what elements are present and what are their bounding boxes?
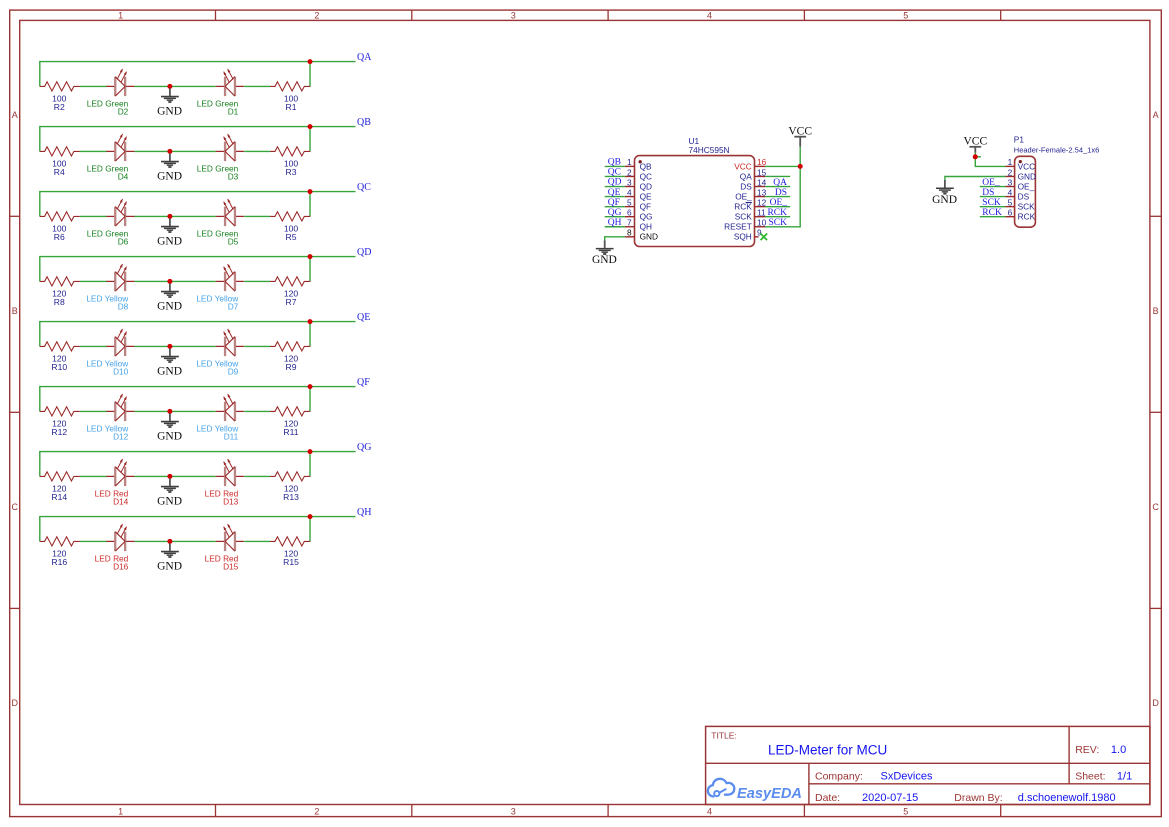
- LED D15 labels: [205, 553, 239, 571]
- wire D13-R13: [244, 475, 270, 477]
- LED D7: [216, 264, 244, 291]
- U1 pin 14 (DS): [740, 177, 766, 191]
- LED D8 labels: [86, 293, 129, 311]
- P1 pin 6 (RCK): [1006, 208, 1036, 222]
- junction dot on net QG: [308, 449, 313, 454]
- P1 pin 1 (VCC): [1006, 157, 1036, 171]
- ground symbol at P1 pin 2: [932, 180, 957, 206]
- LED D3: [216, 134, 244, 161]
- svg-text:9: 9: [757, 228, 762, 238]
- svg-text:D9: D9: [228, 367, 239, 377]
- ground symbol row QG: [157, 478, 182, 507]
- svg-text:D3: D3: [228, 172, 239, 182]
- svg-text:Drawn By:: Drawn By:: [954, 792, 1002, 804]
- svg-text:3: 3: [511, 807, 516, 817]
- resistor R7 value 120: [284, 289, 299, 307]
- wire net QD at U1 pin 3: [605, 186, 625, 188]
- svg-text:OE_: OE_: [1018, 181, 1035, 191]
- svg-text:QC: QC: [608, 168, 621, 178]
- LED D12 labels: [86, 423, 129, 441]
- no-connect flag at U1 pin 9: [761, 234, 768, 241]
- wire net QD rail: [40, 257, 356, 282]
- wire D6-D5 with GND tap: [135, 215, 216, 217]
- U1 pin 8 (GND): [625, 228, 658, 242]
- junction dot on net QA: [308, 59, 313, 64]
- EasyEDA logo: [708, 779, 802, 802]
- svg-text:D: D: [1152, 698, 1159, 708]
- svg-text:R4: R4: [54, 167, 65, 177]
- wire R4-D4: [80, 150, 107, 152]
- svg-text:QG: QG: [608, 208, 622, 218]
- LED D13: [216, 459, 244, 486]
- ground symbol row QH: [157, 543, 182, 572]
- LED D4 labels: [87, 163, 129, 181]
- junction dot GND tap row QF: [167, 409, 172, 414]
- junction dot on net QH: [308, 514, 313, 519]
- LED D14 labels: [95, 488, 129, 506]
- resistor R7: [270, 277, 310, 286]
- svg-text:15: 15: [757, 167, 767, 177]
- resistor R10 value 120: [51, 354, 67, 372]
- ground symbol row QE: [157, 348, 182, 377]
- svg-text:QB: QB: [357, 117, 371, 128]
- svg-text:3: 3: [1008, 177, 1013, 187]
- junction dot on net QD: [308, 254, 313, 259]
- svg-text:3: 3: [627, 177, 632, 187]
- svg-text:D13: D13: [223, 497, 239, 507]
- svg-text:R2: R2: [54, 102, 65, 112]
- svg-text:R11: R11: [283, 427, 298, 437]
- svg-text:D7: D7: [228, 302, 239, 312]
- svg-text:GND: GND: [157, 561, 182, 573]
- resistor R13: [270, 472, 310, 481]
- svg-text:D6: D6: [118, 237, 129, 247]
- LED D7 labels: [196, 293, 239, 311]
- svg-text:2: 2: [1008, 167, 1013, 177]
- svg-text:RCK: RCK: [982, 208, 1002, 218]
- ground symbol row QF: [157, 413, 182, 442]
- REV field: [1075, 744, 1126, 756]
- resistor R3 value 100: [284, 159, 299, 177]
- svg-text:R16: R16: [51, 557, 67, 567]
- wire net DS at P1 pin 4: [980, 196, 1006, 198]
- wire U1 pin 13 stub: [765, 196, 790, 198]
- svg-text:A: A: [12, 110, 18, 120]
- svg-text:6: 6: [627, 208, 632, 218]
- resistor R6 value 100: [52, 224, 67, 242]
- svg-text:R14: R14: [51, 492, 67, 502]
- wire U1 pin 12 stub: [765, 206, 790, 208]
- svg-text:R5: R5: [286, 232, 297, 242]
- wire R16-D16: [80, 540, 107, 542]
- LED D6 labels: [87, 228, 129, 246]
- LED D3 labels: [197, 163, 239, 181]
- resistor R11 value 120: [283, 419, 298, 437]
- svg-text:QD: QD: [640, 181, 652, 191]
- svg-text:2: 2: [314, 807, 319, 817]
- svg-text:QH: QH: [608, 218, 622, 228]
- LED D11: [216, 394, 244, 421]
- junction dot GND tap row QB: [167, 149, 172, 154]
- U1 pin 12 (RCK): [734, 197, 766, 211]
- wire R14-D14: [80, 475, 107, 477]
- svg-text:D: D: [11, 698, 18, 708]
- svg-text:QC: QC: [640, 171, 652, 181]
- wire D16-D15 with GND tap: [135, 540, 216, 542]
- LED D13 labels: [205, 488, 239, 506]
- LED D6: [106, 199, 134, 226]
- svg-text:QF: QF: [608, 198, 620, 208]
- LED D1: [216, 69, 244, 96]
- ground symbol row QB: [157, 153, 182, 182]
- wire net QE rail: [40, 322, 356, 347]
- Company field: [815, 770, 933, 782]
- svg-text:R15: R15: [283, 557, 299, 567]
- resistor R5: [270, 212, 310, 221]
- LED D8: [106, 264, 134, 291]
- LED D16: [106, 524, 134, 551]
- wire net QG rail: [40, 452, 356, 477]
- U1 pin 13 (OE_): [735, 187, 766, 201]
- junction dot GND tap row QA: [167, 84, 172, 89]
- svg-text:D5: D5: [228, 237, 239, 247]
- wire D10-D9 with GND tap: [135, 345, 216, 347]
- svg-text:SQH: SQH: [734, 232, 752, 242]
- svg-text:2020-07-15: 2020-07-15: [862, 792, 918, 804]
- svg-text:RESET: RESET: [724, 222, 752, 232]
- svg-text:GND: GND: [157, 236, 182, 248]
- wire U1 pin 8 to ground: [605, 237, 625, 241]
- resistor R1 value 100: [284, 94, 299, 112]
- svg-text:REV:: REV:: [1075, 744, 1099, 756]
- wire net QB rail: [40, 127, 356, 152]
- U1 pin 4 (QE): [625, 187, 652, 201]
- svg-text:GND: GND: [592, 254, 617, 266]
- wire VCC to P1 pin 1: [975, 153, 1005, 167]
- svg-text:QA: QA: [357, 52, 372, 63]
- wire D15-R15: [244, 540, 270, 542]
- svg-text:R1: R1: [286, 102, 297, 112]
- junction dot on net QB: [308, 124, 313, 129]
- wire net QF at U1 pin 5: [605, 206, 625, 208]
- wire R8-D8: [80, 280, 107, 282]
- svg-text:QE: QE: [640, 191, 652, 201]
- LED D10: [106, 329, 134, 356]
- svg-text:3: 3: [511, 11, 516, 21]
- svg-text:QD: QD: [357, 247, 371, 258]
- svg-text:QA: QA: [740, 171, 752, 181]
- wire net QG at U1 pin 6: [605, 216, 625, 218]
- svg-text:5: 5: [903, 11, 908, 21]
- svg-text:D8: D8: [118, 302, 129, 312]
- junction dot GND tap row QG: [167, 474, 172, 479]
- junction dot GND tap row QE: [167, 344, 172, 349]
- resistor R3: [270, 147, 310, 156]
- wire VCC symbol to junction: [799, 147, 801, 167]
- svg-text:QH: QH: [640, 222, 652, 232]
- svg-text:Date:: Date:: [815, 792, 840, 804]
- junction dot VCC at P1: [973, 154, 978, 159]
- U1 pin 11 (SCK): [735, 208, 766, 222]
- LED D2: [106, 69, 134, 96]
- Drawn By field: [954, 792, 1115, 804]
- wire D4-D3 with GND tap: [135, 150, 216, 152]
- IC U1 74HC595N body: [635, 156, 755, 247]
- svg-text:2: 2: [314, 11, 319, 21]
- svg-text:1.0: 1.0: [1111, 744, 1126, 756]
- resistor R14 value 120: [51, 484, 67, 502]
- U1 pin-1 marker dot: [639, 160, 642, 163]
- resistor R8 value 120: [52, 289, 67, 307]
- svg-text:D1: D1: [228, 107, 239, 117]
- wire net QH at U1 pin 7: [605, 226, 625, 228]
- LED D14: [106, 459, 134, 486]
- svg-text:R12: R12: [51, 427, 67, 437]
- P1 pin 2 (GND): [1006, 167, 1037, 181]
- svg-text:1: 1: [118, 807, 123, 817]
- svg-text:TITLE:: TITLE:: [711, 731, 737, 741]
- wire net QB at U1 pin 1: [605, 165, 625, 167]
- U1 pin 1 (QB): [625, 157, 652, 171]
- wire D1-R1: [244, 85, 270, 87]
- resistor R2 value 100: [52, 94, 67, 112]
- LED D16 labels: [95, 553, 129, 571]
- wire net OE_ at P1 pin 3: [980, 186, 1006, 188]
- svg-text:SCK: SCK: [982, 198, 1001, 208]
- title block frame: [706, 726, 1150, 804]
- LED D1 labels: [197, 98, 239, 116]
- svg-text:R9: R9: [286, 362, 297, 372]
- svg-text:7: 7: [627, 218, 632, 228]
- resistor R15 value 120: [283, 549, 299, 567]
- svg-text:P1: P1: [1014, 135, 1025, 145]
- LED D4: [106, 134, 134, 161]
- resistor R12 value 120: [51, 419, 67, 437]
- svg-text:D16: D16: [113, 562, 129, 572]
- svg-text:QG: QG: [640, 212, 653, 222]
- svg-text:RCK: RCK: [1018, 212, 1036, 222]
- svg-text:R10: R10: [51, 362, 67, 372]
- junction dot GND tap row QC: [167, 214, 172, 219]
- svg-text:A: A: [1153, 110, 1159, 120]
- svg-text:QD: QD: [608, 178, 622, 188]
- svg-text:R8: R8: [54, 297, 65, 307]
- svg-text:D11: D11: [224, 432, 239, 442]
- LED D12: [106, 394, 134, 421]
- U1 pin 6 (QG): [625, 208, 653, 222]
- wire net QF rail: [40, 387, 356, 412]
- svg-text:R6: R6: [54, 232, 65, 242]
- svg-text:5: 5: [1008, 197, 1013, 207]
- svg-text:D15: D15: [223, 562, 239, 572]
- svg-text:QF: QF: [640, 202, 652, 212]
- wire net QA rail: [40, 62, 356, 87]
- wire D3-R3: [244, 150, 270, 152]
- svg-text:VCC: VCC: [963, 135, 987, 147]
- svg-text:1: 1: [627, 157, 632, 167]
- svg-text:1: 1: [1008, 157, 1013, 167]
- svg-text:D12: D12: [113, 432, 129, 442]
- svg-text:D4: D4: [118, 172, 129, 182]
- svg-text:6: 6: [1008, 208, 1013, 218]
- resistor R14: [40, 472, 80, 481]
- svg-text:GND: GND: [157, 106, 182, 118]
- wire D2-D1 with GND tap: [135, 85, 216, 87]
- svg-text:4: 4: [627, 187, 632, 197]
- svg-text:GND: GND: [932, 194, 957, 206]
- junction dot VCC at U1: [798, 164, 803, 169]
- svg-text:GND: GND: [640, 232, 658, 242]
- wire net RCK at P1 pin 6: [980, 216, 1006, 218]
- wire U1 pin 14 stub: [765, 186, 790, 188]
- wire D7-R7: [244, 280, 270, 282]
- overline on U1 pin 12 name RCK: [746, 202, 752, 204]
- svg-text:GND: GND: [157, 366, 182, 378]
- ground symbol row QD: [157, 283, 182, 312]
- svg-text:5: 5: [903, 807, 908, 817]
- wire GND to P1 pin 2: [945, 177, 1006, 181]
- wire D12-D11 with GND tap: [135, 410, 216, 412]
- wire net SCK at P1 pin 5: [980, 206, 1006, 208]
- svg-text:D10: D10: [113, 367, 129, 377]
- resistor R13 value 120: [283, 484, 299, 502]
- svg-text:QG: QG: [357, 442, 371, 453]
- wire R6-D6: [80, 215, 107, 217]
- resistor R6: [40, 212, 80, 221]
- svg-text:QF: QF: [357, 377, 370, 388]
- svg-text:DS: DS: [740, 181, 752, 191]
- svg-text:1: 1: [118, 11, 123, 21]
- U1 pin 3 (QD): [625, 177, 652, 191]
- svg-text:Company:: Company:: [815, 770, 863, 782]
- U1 pin 10 (RESET): [724, 218, 766, 232]
- svg-text:R3: R3: [286, 167, 297, 177]
- wire D5-R5: [244, 215, 270, 217]
- connector P1 body: [1015, 156, 1036, 227]
- svg-text:C: C: [11, 502, 18, 512]
- svg-text:D2: D2: [118, 107, 129, 117]
- svg-text:4: 4: [1008, 187, 1013, 197]
- resistor R15: [270, 537, 310, 546]
- VCC power symbol at P1: [963, 135, 987, 152]
- resistor R5 value 100: [284, 224, 299, 242]
- svg-text:SxDevices: SxDevices: [881, 770, 933, 782]
- LED D9 labels: [196, 358, 239, 376]
- resistor R16 value 120: [51, 549, 67, 567]
- wire U1 pin 11 stub: [765, 216, 790, 218]
- svg-text:GND: GND: [1018, 171, 1036, 181]
- wire D8-D7 with GND tap: [135, 280, 216, 282]
- svg-text:C: C: [1152, 502, 1159, 512]
- svg-text:VCC: VCC: [734, 161, 752, 171]
- resistor R11: [270, 407, 310, 416]
- svg-text:VCC: VCC: [788, 125, 812, 137]
- U1 pin 16 (VCC): [734, 157, 766, 171]
- svg-text:LED-Meter for MCU: LED-Meter for MCU: [768, 743, 887, 758]
- svg-text:QH: QH: [357, 507, 371, 518]
- ground symbol row QC: [157, 218, 182, 247]
- LED D5: [216, 199, 244, 226]
- svg-text:Sheet:: Sheet:: [1075, 770, 1105, 782]
- Sheet field: [1075, 770, 1132, 782]
- svg-text:QC: QC: [357, 182, 371, 193]
- junction dot on net QE: [308, 319, 313, 324]
- svg-text:SCK: SCK: [1018, 202, 1036, 212]
- svg-text:R13: R13: [283, 492, 299, 502]
- svg-text:2: 2: [627, 167, 632, 177]
- svg-text:OE_: OE_: [735, 191, 752, 201]
- junction dot on net QF: [308, 384, 313, 389]
- resistor R9 value 120: [284, 354, 299, 372]
- resistor R4 value 100: [52, 159, 67, 177]
- svg-text:11: 11: [757, 208, 766, 218]
- svg-text:Header-Female-2.54_1x6: Header-Female-2.54_1x6: [1014, 145, 1099, 154]
- wire VCC net: U1 pin 16 to VCC rail: [765, 165, 800, 167]
- wire D9-R9: [244, 345, 270, 347]
- wire U1 pin 15 stub: [765, 175, 790, 177]
- P1 pin 4 (DS): [1006, 187, 1030, 201]
- svg-text:GND: GND: [157, 301, 182, 313]
- U1 pin 15 (QA): [740, 167, 767, 181]
- svg-text:DS: DS: [1018, 191, 1030, 201]
- wire net QE at U1 pin 4: [605, 196, 625, 198]
- junction dot GND tap row QD: [167, 279, 172, 284]
- wire R10-D10: [80, 345, 107, 347]
- ground symbol at U1 pin 8: [592, 240, 617, 265]
- LED D15: [216, 524, 244, 551]
- svg-text:B: B: [12, 306, 18, 316]
- svg-text:d.schoenewolf.1980: d.schoenewolf.1980: [1018, 792, 1116, 804]
- svg-text:DS: DS: [982, 188, 994, 198]
- svg-text:QE: QE: [608, 188, 621, 198]
- svg-text:GND: GND: [157, 171, 182, 183]
- VCC power symbol at U1: [788, 125, 812, 147]
- Date field: [815, 792, 918, 804]
- wire net QC rail: [40, 192, 356, 217]
- svg-text:10: 10: [757, 218, 767, 228]
- wire D14-D13 with GND tap: [135, 475, 216, 477]
- wire R12-D12: [80, 410, 107, 412]
- svg-text:SCK: SCK: [735, 212, 753, 222]
- wire net QH rail: [40, 517, 356, 542]
- svg-text:4: 4: [707, 11, 712, 21]
- LED D9: [216, 329, 244, 356]
- P1 pin 5 (SCK): [1006, 197, 1036, 211]
- resistor R12: [40, 407, 80, 416]
- svg-text:GND: GND: [157, 496, 182, 508]
- junction dot on net QC: [308, 189, 313, 194]
- U1 pin 7 (QH): [625, 218, 652, 232]
- svg-text:EasyEDA: EasyEDA: [737, 786, 802, 802]
- svg-text:4: 4: [707, 807, 712, 817]
- svg-text:1/1: 1/1: [1117, 770, 1132, 782]
- svg-text:R7: R7: [286, 297, 297, 307]
- LED D2 labels: [87, 98, 129, 116]
- LED D10 labels: [86, 358, 129, 376]
- resistor R16: [40, 537, 80, 546]
- U1 pin 9 (SQH): [734, 228, 762, 242]
- svg-text:D14: D14: [113, 497, 129, 507]
- wire net QC at U1 pin 2: [605, 175, 625, 177]
- resistor R4: [40, 147, 80, 156]
- wire VCC net: U1 pin 10 to VCC rail: [765, 166, 800, 226]
- resistor R2: [40, 82, 80, 91]
- U1 pin 5 (QF): [625, 197, 651, 211]
- svg-text:VCC: VCC: [1018, 161, 1036, 171]
- svg-text:B: B: [1153, 306, 1159, 316]
- resistor R9: [270, 342, 310, 351]
- wire R2-D2: [80, 85, 107, 87]
